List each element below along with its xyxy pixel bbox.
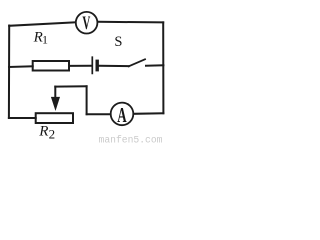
- wire: to ammeter: [87, 113, 111, 115]
- ammeter circle: [111, 103, 134, 126]
- wire: bottom-left horizontal to rheostat R2: [9, 117, 36, 119]
- wire: ammeter to right vertical: [134, 112, 164, 115]
- voltmeter U-V circle: [76, 12, 98, 34]
- rheostat R2 (box): [36, 113, 73, 123]
- svg-text:S: S: [114, 34, 122, 50]
- svg-text:1: 1: [42, 33, 48, 47]
- rheostat slider arrowhead: [51, 97, 60, 111]
- wire: top-right horizontal from voltmeter to corner: [98, 21, 163, 24]
- battery: long thin plate (positive): [91, 57, 93, 73]
- wire: switch right contact to right vertical: [146, 64, 163, 66]
- rheostat slider stem wire: [54, 87, 56, 98]
- battery: short thick plate (negative): [95, 61, 98, 69]
- wire: slider vertical down: [86, 86, 88, 114]
- svg-text:V: V: [82, 13, 91, 34]
- wire: slider top horizontal: [55, 85, 86, 87]
- switch S blade (open): [129, 59, 145, 66]
- svg-text:A: A: [117, 103, 127, 127]
- wire: left vertical side: [8, 26, 10, 119]
- svg-text:2: 2: [49, 126, 56, 141]
- svg-text:R: R: [38, 123, 48, 139]
- svg-text:manfen5.com: manfen5.com: [99, 135, 163, 146]
- wire: right vertical side: [162, 22, 164, 113]
- wire: top-left horizontal to voltmeter: [9, 22, 75, 26]
- wire: middle row, left vertical to R1: [9, 65, 33, 68]
- resistor R1 (box): [33, 61, 69, 71]
- wire: battery to switch S left contact: [99, 65, 129, 67]
- wire: R1 to battery: [69, 65, 91, 67]
